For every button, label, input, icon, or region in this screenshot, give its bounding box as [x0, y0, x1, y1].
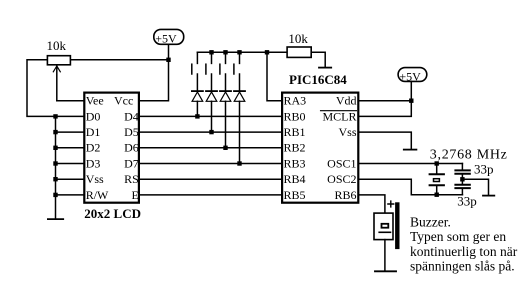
wire PIC OSC2 to C2 rail: [359, 179, 462, 195]
label crystal frequency: [430, 147, 508, 162]
MCLR overline: [321, 110, 357, 112]
svg-text:OSC2: OSC2: [327, 172, 356, 186]
LCD pin labels left: [86, 94, 109, 202]
potentiometer R1 wiper arrow: [53, 66, 60, 101]
wire +5V to PIC MCLR: [359, 81, 411, 116]
note text buzzer description: [410, 215, 518, 274]
wire bus to LCD D0: [56, 115, 84, 117]
wire D1 to RB0 row: [196, 101, 198, 116]
crystal X1 3,2768 MHz: [430, 164, 444, 195]
capacitor C1 33p: [455, 164, 469, 180]
junction dot C1/C2 midnode: [460, 177, 464, 181]
ground symbol left bus: [48, 218, 63, 220]
+5V supply symbol (left): [154, 29, 184, 45]
svg-text:RB6: RB6: [334, 188, 356, 202]
svg-text:RB0: RB0: [284, 109, 306, 123]
svg-text:D0: D0: [86, 109, 101, 123]
label R1 10k: [47, 38, 67, 53]
svg-text:RB3: RB3: [284, 156, 306, 170]
ground bus left vertical: [55, 116, 57, 219]
svg-text:Vss: Vss: [338, 125, 356, 139]
svg-text:+5V: +5V: [399, 69, 421, 83]
diode D2: [206, 91, 217, 101]
svg-text:D4: D4: [124, 109, 139, 123]
svg-text:Vee: Vee: [86, 94, 104, 108]
svg-text:spänningen slås på.: spänningen slås på.: [410, 258, 515, 273]
wire D4 to RB3 row: [239, 101, 241, 163]
LCD module U2 box: [84, 93, 139, 203]
svg-text:R/W: R/W: [86, 188, 109, 202]
wire midnode to ground: [462, 179, 488, 195]
wire PIC RB6 to buzzer: [359, 195, 385, 212]
wire LCD D5 to PIC RB1: [140, 131, 282, 133]
pushbutton S2: [206, 52, 212, 90]
svg-text:RB4: RB4: [284, 172, 306, 186]
ground symbol buzzer: [375, 270, 396, 272]
potentiometer R1 body: [47, 56, 70, 65]
wire PIC OSC1 to C1: [359, 163, 462, 165]
svg-text:D2: D2: [86, 141, 101, 155]
label PIC16C84: [289, 72, 347, 87]
svg-text:RB2: RB2: [284, 141, 306, 155]
wire bus to LCD D3: [56, 163, 84, 165]
LCD pin labels right: [114, 94, 139, 202]
wire bus to LCD R/W: [56, 194, 84, 196]
svg-text:Typen som ger en: Typen som ger en: [410, 229, 506, 244]
ground symbol oscillator: [483, 195, 494, 197]
svg-text:D1: D1: [86, 125, 101, 139]
wire +5V to LCD Vcc: [140, 44, 169, 100]
PIC pin labels left: [284, 94, 307, 202]
svg-text:RS: RS: [124, 172, 139, 186]
svg-text:Vss: Vss: [86, 172, 104, 186]
svg-text:Vcc: Vcc: [114, 94, 133, 108]
svg-text:OSC1: OSC1: [327, 156, 356, 170]
svg-text:Vdd: Vdd: [336, 94, 357, 108]
svg-text:RA3: RA3: [284, 94, 307, 108]
wire pot right terminal to +5V stem: [71, 59, 168, 61]
wire D3 to RB2 row: [225, 101, 227, 148]
svg-text:PIC16C84: PIC16C84: [289, 72, 347, 87]
junction dots ground bus: [53, 114, 57, 197]
junction dot D4/RB3: [237, 161, 241, 165]
svg-text:Buzzer.: Buzzer.: [410, 215, 451, 230]
label R2 10k: [288, 31, 308, 46]
resistor R2 body: [287, 47, 311, 57]
wire bus to LCD D2: [56, 147, 84, 149]
ground symbol Vss: [404, 149, 417, 151]
wire PIC Vss to ground: [359, 132, 411, 149]
wire D2 to RB1 row: [211, 101, 213, 132]
svg-text:33p: 33p: [474, 162, 494, 177]
junction dot D1/RB0: [195, 114, 199, 118]
wire LCD RS to PIC RB4: [140, 178, 282, 180]
buzzer BZ1 piezo bar: [395, 202, 399, 249]
svg-text:kontinuerlig ton när: kontinuerlig ton när: [410, 244, 518, 259]
svg-text:RB5: RB5: [284, 188, 306, 202]
diode D1: [192, 91, 203, 101]
wire buzzer to ground: [384, 240, 386, 271]
wire LCD E to PIC RB5: [140, 194, 282, 196]
svg-text:10k: 10k: [288, 31, 308, 46]
label C1 33p: [474, 162, 494, 177]
svg-text:MCLR: MCLR: [322, 109, 356, 123]
wire pot left terminal to ground bus (node D0): [27, 60, 56, 117]
buzzer BZ1 plus sign: [388, 201, 394, 207]
pushbutton S3: [220, 52, 226, 90]
junction dots keypad bus: [209, 50, 269, 54]
wire bus to LCD D1: [56, 131, 84, 133]
PIC pin labels right: [322, 94, 356, 202]
wire PIC Vdd to +5V: [359, 100, 411, 102]
svg-text:+5V: +5V: [155, 32, 177, 46]
junction dot Vdd/+5V: [409, 99, 413, 103]
svg-text:10k: 10k: [47, 38, 67, 53]
pushbutton S1: [192, 52, 198, 90]
diode D3: [220, 91, 231, 101]
wire wiper to LCD Vee: [57, 100, 84, 102]
buzzer BZ1 body: [374, 213, 393, 240]
+5V supply symbol (right): [398, 68, 427, 84]
svg-text:D3: D3: [86, 156, 101, 170]
svg-text:E: E: [131, 188, 138, 202]
wire R2 to ground: [312, 52, 325, 67]
wire keypad bus to PIC RA3: [267, 52, 281, 100]
pushbutton S4: [234, 52, 240, 90]
ground symbol R2: [319, 67, 331, 69]
wire bus to LCD Vss: [56, 178, 84, 180]
PIC16C84 U1 box: [282, 93, 358, 203]
diode D4: [234, 91, 245, 101]
keypad bus wire top: [197, 51, 286, 53]
svg-text:3,2768 MHz: 3,2768 MHz: [430, 147, 508, 162]
svg-text:33p: 33p: [457, 193, 477, 208]
wire LCD D6 to PIC RB2: [140, 147, 282, 149]
label C2 33p: [457, 193, 477, 208]
capacitor C2 33p: [455, 179, 469, 194]
svg-text:20x2 LCD: 20x2 LCD: [84, 206, 141, 221]
junction dot D3/RB2: [223, 146, 227, 150]
svg-text:D7: D7: [124, 156, 139, 170]
junction dot crystal/OSC2 rail: [435, 193, 439, 197]
svg-text:RB1: RB1: [284, 125, 306, 139]
junction dot D2/RB1: [209, 130, 213, 134]
svg-text:D5: D5: [124, 125, 139, 139]
wire LCD D7 to PIC RB3: [140, 163, 282, 165]
junction dot pot/+5V: [166, 58, 170, 62]
label 20x2 LCD: [84, 206, 141, 221]
wire LCD D4 to PIC RB0: [140, 115, 282, 117]
junction dot crystal/OSC1: [435, 161, 439, 165]
svg-text:D6: D6: [124, 141, 139, 155]
